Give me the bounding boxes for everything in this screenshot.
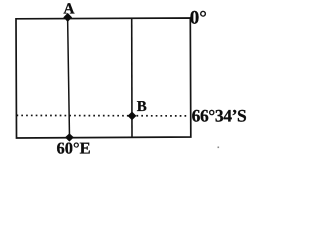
node 60E (diamond marker) [65, 133, 74, 141]
wire: meridian line through B [131, 18, 133, 137]
wire: meridian line 60E (through A) [68, 18, 70, 138]
svg-text:A: A [63, 1, 75, 18]
svg-text:60°E: 60°E [57, 139, 91, 158]
svg-text:66°34’S: 66°34’S [192, 105, 247, 125]
svg-text:B: B [137, 99, 147, 115]
scan speck [218, 147, 220, 149]
node B (diamond marker) [128, 112, 137, 121]
map frame (rectangle border) [16, 18, 191, 138]
wire: dotted latitude line 66°34'S [17, 114, 189, 117]
svg-text:0°: 0° [190, 7, 207, 28]
node A (diamond marker) [63, 13, 72, 22]
